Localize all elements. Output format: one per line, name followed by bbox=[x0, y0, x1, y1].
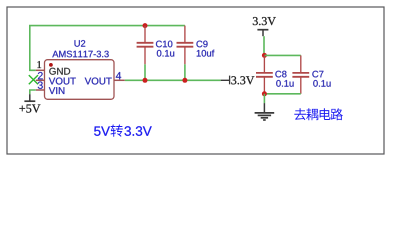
U2 pin 4 VOUT right bbox=[85, 72, 125, 84]
no-connect flag on pin 2 bbox=[29, 75, 38, 84]
junction at C10 bottom bbox=[143, 78, 148, 83]
ground symbol bbox=[255, 103, 275, 120]
capacitor C9 10uf bbox=[177, 26, 215, 81]
power port 3.3V top right bbox=[253, 17, 276, 36]
capacitor C10 0.1u bbox=[137, 26, 175, 81]
power port +5V bbox=[19, 94, 40, 112]
junction at C8 top bbox=[262, 53, 267, 58]
wire down to ground bbox=[263, 94, 265, 103]
wire C8 top to C7 top bbox=[264, 54, 300, 56]
U2 pin-1 marker dot bbox=[49, 63, 53, 67]
net label 3.3V on output wire bbox=[221, 76, 255, 85]
regulator U2 AMS1117-3.3 body bbox=[45, 60, 115, 100]
annotation 去耦电路 bbox=[294, 108, 343, 120]
U2 pin 1 GND bbox=[36, 61, 70, 75]
U2 pin 2 VOUT left bbox=[36, 72, 76, 85]
wire 3.3V rail down to decoupling caps bbox=[263, 36, 265, 55]
U2 reference designator bbox=[75, 40, 86, 47]
junction at C9 bottom bbox=[182, 78, 187, 83]
junction at C8 bottom bbox=[262, 91, 267, 96]
capacitor C7 0.1u bbox=[292, 55, 330, 93]
wire GND net from pin 1 up and across the top bbox=[30, 26, 185, 71]
wire VIN to +5V bbox=[30, 90, 36, 94]
wire C8 bottom to C7 bottom bbox=[264, 93, 300, 95]
capacitor C8 0.1u bbox=[256, 55, 294, 93]
U2 value AMS1117-3.3 bbox=[52, 51, 108, 58]
annotation 5V转3.3V bbox=[94, 124, 152, 136]
U2 pin 3 VIN bbox=[36, 81, 65, 94]
wire 3.3V output net bbox=[125, 79, 221, 81]
junction at C10 top bbox=[143, 23, 148, 28]
